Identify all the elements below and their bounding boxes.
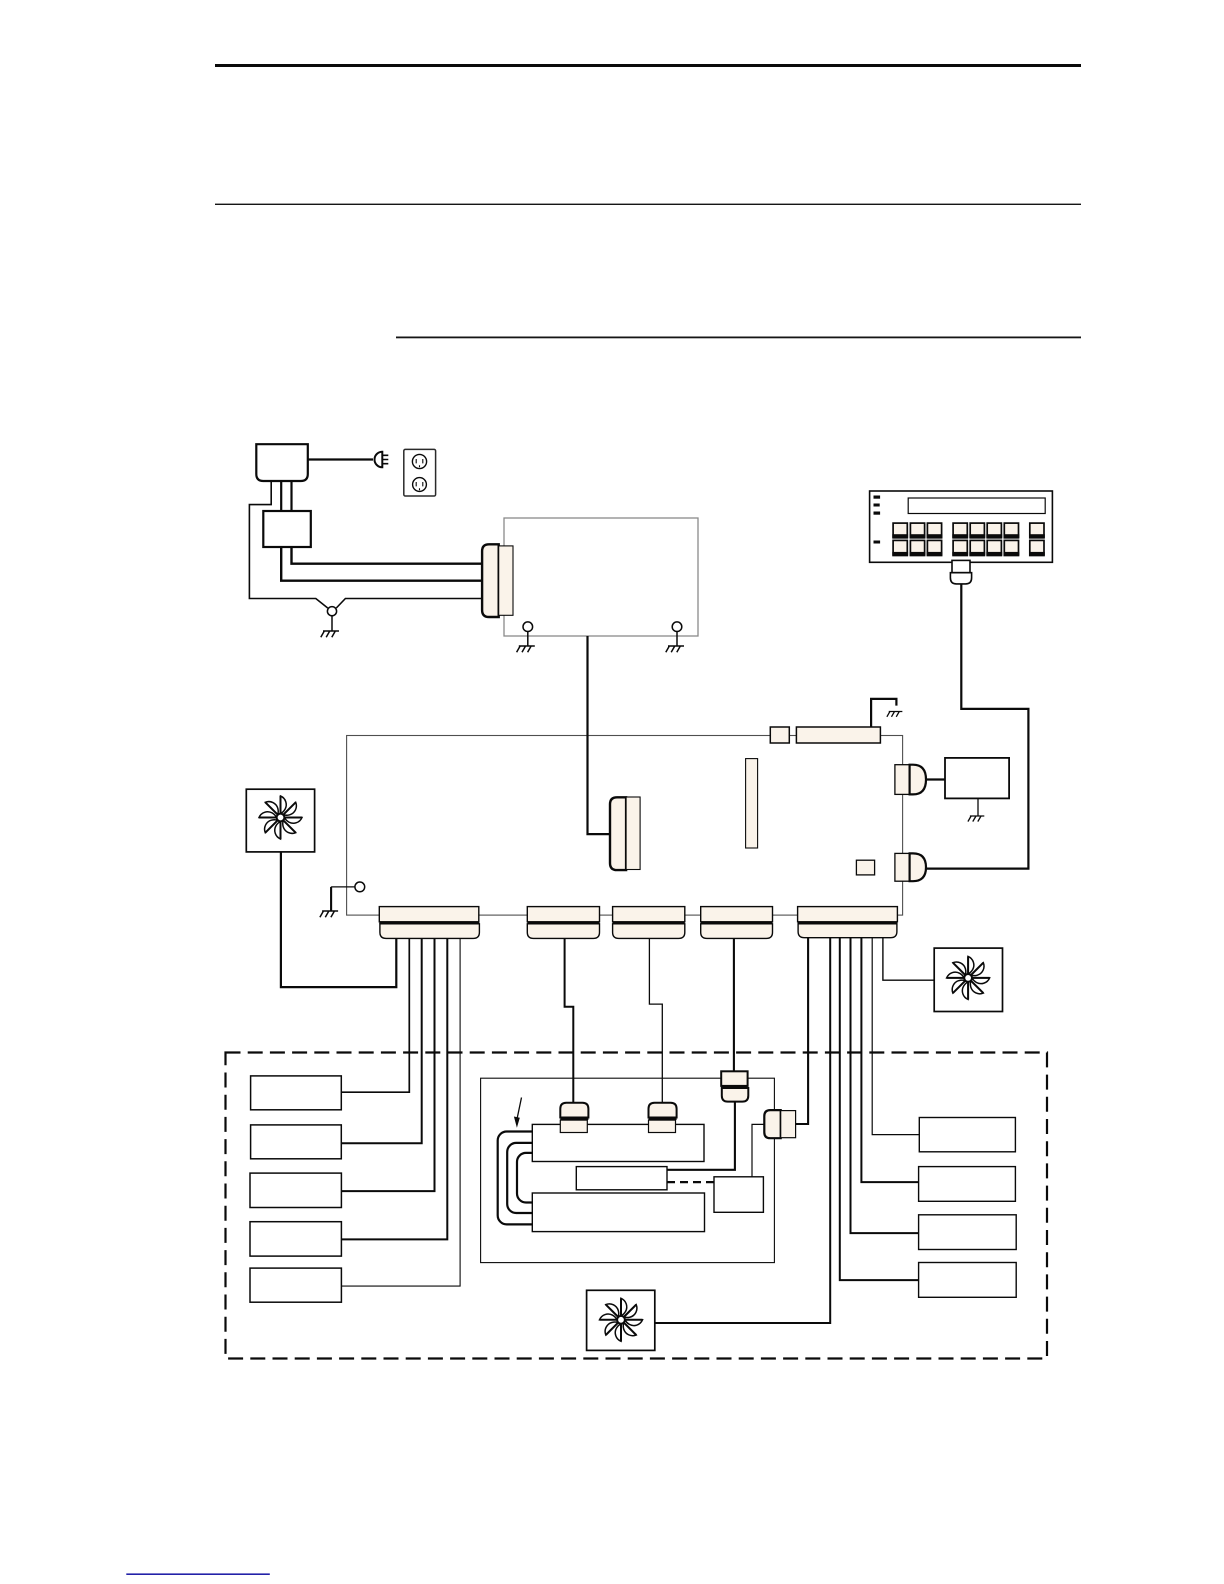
wire serial to external box — [926, 778, 945, 780]
wire J4 to plug P3 — [733, 938, 735, 1071]
panel keys row 1 — [893, 523, 1044, 538]
board small chip — [856, 860, 874, 875]
board ground strap top — [871, 699, 896, 728]
wire J1 pin6 to L5 — [341, 938, 460, 1286]
right cooling fan box F2 — [934, 948, 1002, 1011]
ground terminal G1 — [327, 607, 336, 616]
wire filter-to-PSU a — [292, 547, 484, 564]
plug P3 — [721, 1071, 747, 1086]
ribbon loop outer — [498, 1132, 533, 1225]
wire J5 pin1 to plug P4 — [796, 938, 809, 1124]
AC power cord body — [256, 444, 308, 481]
PSU output wire — [588, 636, 611, 834]
board connector J4 — [701, 907, 773, 922]
panel LCD window — [908, 498, 1045, 514]
right option box R2 — [919, 1167, 1016, 1202]
left option box L3 — [250, 1173, 341, 1207]
board ground terminal — [355, 882, 365, 892]
panel LEDs — [874, 496, 881, 499]
board connector J3 — [613, 907, 685, 922]
left option box L1 — [251, 1076, 342, 1110]
wire J3 to plug P2 — [649, 938, 662, 1102]
board connector J5 — [798, 907, 898, 922]
wire J1 pin2 to L1 — [341, 938, 409, 1092]
wire J5 pin3 to R4 — [840, 938, 919, 1280]
board riser slot — [746, 759, 758, 848]
wire filter-to-PSU b — [281, 547, 483, 581]
wire fan F1 to J1 pin1 — [281, 852, 396, 987]
board PSU connector C2 — [610, 797, 626, 870]
left option box L4 — [250, 1222, 341, 1256]
panel keys row 2 — [893, 540, 1044, 555]
wire P3 to middle rect — [667, 1102, 735, 1170]
inner assembly box — [481, 1078, 775, 1262]
external device box — [945, 758, 1009, 799]
wire J5 pin7 to fan F2 — [883, 938, 934, 981]
wire J2 to plug P1 — [565, 938, 574, 1102]
controller board U2 — [347, 736, 903, 916]
AC cord wire — [308, 458, 373, 460]
board memory bar — [796, 727, 880, 743]
wall outlet — [404, 449, 436, 496]
dashed printer-frame boundary — [226, 1053, 1048, 1359]
left option box L5 — [250, 1268, 341, 1302]
left cooling fan box F1 — [246, 789, 314, 852]
ribbon loop middle — [507, 1143, 532, 1213]
panel cable — [926, 584, 1028, 869]
wire J1 pin3 to L2 — [341, 938, 421, 1143]
plug P1 — [560, 1103, 588, 1118]
pointer arrow — [517, 1098, 522, 1121]
wire J1 pin4 to L3 — [341, 938, 434, 1191]
serial port connector upper — [895, 765, 910, 795]
parallel port connector lower — [895, 853, 910, 881]
external box ground — [977, 798, 979, 816]
section rule — [396, 337, 1081, 339]
power supply box U1 — [504, 518, 698, 636]
operator panel — [870, 491, 1053, 562]
wire J5 pin6 to R1 — [872, 938, 919, 1135]
line filter box — [263, 511, 311, 547]
wire side box to plug P4 — [752, 1124, 764, 1176]
dashed link middle rect to side box — [667, 1181, 714, 1183]
header rule thin — [215, 204, 1081, 205]
bottom cooling fan box F3 — [587, 1290, 655, 1350]
footer link underline — [126, 1573, 269, 1575]
wire J5 pin5 to R2 — [861, 938, 918, 1182]
wire J5 pin4 to R3 — [851, 938, 919, 1233]
right option box R4 — [919, 1263, 1017, 1298]
wire cord-to-filter a — [280, 481, 282, 511]
assembly middle rect — [576, 1167, 667, 1190]
assembly bottom rect — [532, 1193, 704, 1232]
assembly top rect — [532, 1124, 704, 1161]
board connector J2 — [527, 907, 599, 922]
assembly side box — [714, 1177, 763, 1213]
header rule thick — [215, 64, 1081, 67]
plug P2 — [649, 1103, 677, 1118]
wire cord-to-filter b — [290, 481, 292, 511]
right option box R1 — [919, 1118, 1015, 1152]
left option box L2 — [251, 1125, 342, 1159]
ribbon loop inner — [517, 1153, 532, 1203]
panel cable connector — [952, 560, 970, 572]
right option box R3 — [919, 1215, 1017, 1250]
PSU ground lug left — [523, 622, 533, 632]
wire J5 pin2 to fan F3 — [655, 938, 830, 1323]
ground wire run — [249, 481, 482, 608]
board connector J1 — [379, 907, 479, 922]
PSU input connector C1 — [482, 544, 499, 617]
wire J1 pin5 to L4 — [341, 938, 447, 1239]
plug P4 — [764, 1110, 780, 1138]
AC plug — [375, 452, 383, 468]
PSU ground lug right — [672, 622, 682, 632]
board jumper block — [770, 727, 789, 743]
